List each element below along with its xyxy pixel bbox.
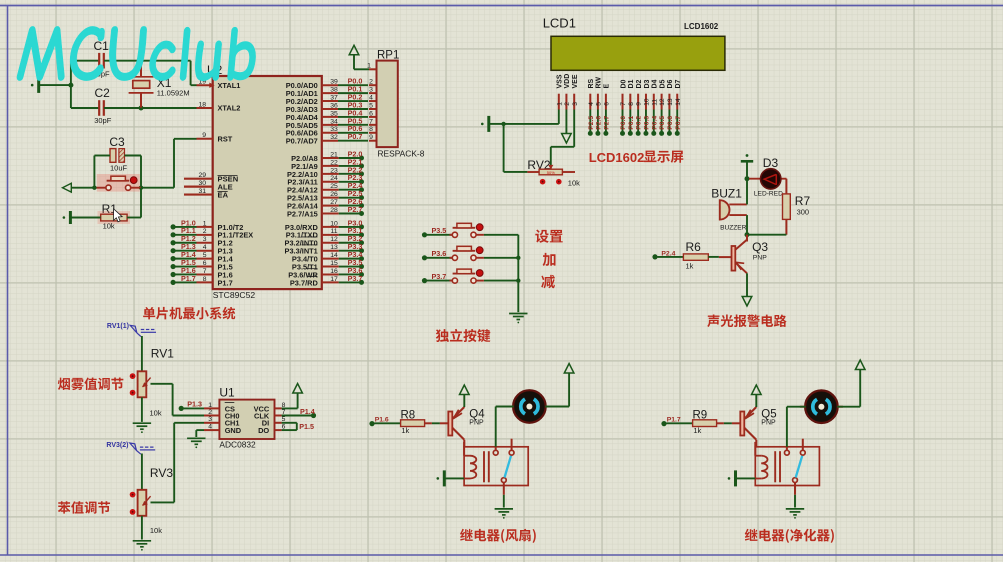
svg-text:P2.5: P2.5 (588, 116, 595, 130)
svg-text:13: 13 (667, 98, 674, 106)
svg-text:50%: 50% (547, 170, 555, 175)
svg-text:1: 1 (556, 102, 563, 106)
svg-text:P1.7: P1.7 (218, 278, 233, 287)
svg-text:P0.0: P0.0 (620, 116, 627, 130)
svg-text:9: 9 (636, 102, 643, 106)
svg-text:D5: D5 (659, 79, 666, 88)
svg-text:31: 31 (198, 188, 206, 195)
svg-text:4: 4 (208, 424, 212, 431)
svg-text:7: 7 (203, 268, 207, 275)
svg-text:7: 7 (620, 102, 627, 106)
svg-text:10k: 10k (103, 222, 115, 231)
svg-text:P1.4: P1.4 (300, 407, 315, 416)
svg-text:R7: R7 (795, 194, 811, 208)
svg-text:10: 10 (330, 220, 338, 227)
svg-text:P3.7: P3.7 (432, 272, 447, 281)
svg-text:10uF: 10uF (110, 164, 128, 173)
svg-text:P1.3: P1.3 (187, 399, 202, 408)
svg-text:E: E (604, 84, 611, 89)
svg-text:16: 16 (330, 268, 338, 275)
svg-text:1k: 1k (401, 426, 409, 435)
svg-text:10k: 10k (150, 408, 162, 417)
svg-text:P0.4: P0.4 (651, 116, 658, 130)
svg-text:3: 3 (203, 236, 207, 243)
svg-text:RST: RST (218, 134, 233, 143)
svg-text:37: 37 (330, 94, 338, 101)
svg-text:XTAL2: XTAL2 (218, 103, 241, 112)
svg-text:RV3(2): RV3(2) (106, 442, 128, 449)
svg-text:RV3: RV3 (150, 466, 173, 480)
svg-text:21: 21 (330, 151, 338, 158)
svg-text:10: 10 (644, 98, 651, 106)
svg-text:XTAL1: XTAL1 (218, 81, 241, 90)
svg-text:14: 14 (675, 98, 682, 106)
svg-text:4: 4 (588, 102, 595, 106)
svg-text:2: 2 (203, 228, 207, 235)
svg-text:D4: D4 (652, 79, 659, 88)
svg-text:U1: U1 (219, 386, 235, 400)
svg-text:ADC0832: ADC0832 (219, 439, 256, 449)
svg-text:P3.7/RD: P3.7/RD (290, 278, 319, 287)
svg-text:9: 9 (369, 134, 373, 141)
svg-text:11: 11 (330, 228, 337, 235)
svg-text:D6: D6 (667, 79, 674, 88)
svg-text:RV1: RV1 (151, 347, 174, 361)
svg-text:27: 27 (330, 199, 338, 206)
svg-text:PNP: PNP (753, 254, 767, 261)
svg-text:12: 12 (659, 98, 666, 106)
svg-text:11.0592M: 11.0592M (157, 89, 190, 98)
svg-text:PNP: PNP (761, 419, 776, 426)
svg-text:P3.7: P3.7 (348, 274, 363, 283)
svg-text:D7: D7 (675, 79, 682, 88)
svg-text:10k: 10k (150, 526, 162, 535)
svg-text:2: 2 (564, 102, 571, 106)
svg-text:1: 1 (367, 62, 371, 69)
svg-text:3: 3 (572, 102, 579, 106)
svg-text:3: 3 (369, 87, 373, 94)
svg-text:P1.5: P1.5 (299, 422, 314, 431)
svg-text:STC89C52: STC89C52 (213, 290, 256, 300)
svg-text:26: 26 (330, 191, 338, 198)
svg-text:VEE: VEE (572, 74, 579, 88)
svg-text:P2.7/A15: P2.7/A15 (287, 209, 318, 218)
svg-text:D1: D1 (628, 79, 635, 88)
svg-text:5: 5 (203, 252, 207, 259)
svg-text:23: 23 (330, 167, 338, 174)
svg-text:1: 1 (208, 402, 212, 409)
svg-text:LED-RED: LED-RED (754, 191, 783, 198)
svg-text:LCD1: LCD1 (543, 16, 576, 31)
svg-text:10k: 10k (568, 178, 580, 187)
svg-text:6: 6 (369, 110, 373, 117)
svg-text:14: 14 (330, 252, 338, 259)
svg-text:34: 34 (330, 118, 338, 125)
svg-text:RV1(1): RV1(1) (107, 323, 129, 330)
svg-text:11: 11 (651, 99, 658, 106)
svg-text:P2.7: P2.7 (348, 205, 363, 214)
svg-text:P0.1: P0.1 (628, 116, 635, 130)
svg-text:R6: R6 (686, 240, 702, 254)
svg-text:P1.7: P1.7 (667, 416, 681, 423)
svg-text:8: 8 (369, 126, 373, 133)
svg-text:P0.6: P0.6 (667, 116, 674, 130)
svg-text:BUZ1: BUZ1 (711, 187, 742, 201)
svg-text:P2.7: P2.7 (604, 116, 611, 130)
svg-text:4: 4 (203, 244, 207, 251)
svg-text:30: 30 (198, 180, 206, 187)
svg-text:VDD: VDD (564, 74, 571, 89)
svg-text:15: 15 (330, 260, 338, 267)
svg-text:38: 38 (330, 87, 338, 94)
svg-text:RS: RS (588, 78, 595, 88)
svg-text:P0.5: P0.5 (659, 116, 666, 130)
svg-text:3: 3 (208, 416, 212, 423)
svg-text:RESPACK-8: RESPACK-8 (378, 149, 425, 159)
svg-text:32: 32 (330, 134, 338, 141)
svg-text:P0.7: P0.7 (348, 132, 363, 141)
svg-text:13: 13 (330, 244, 338, 251)
svg-text:LCD1602: LCD1602 (589, 150, 645, 165)
svg-text:P0.7: P0.7 (675, 116, 682, 130)
svg-text:29: 29 (198, 172, 206, 179)
svg-text:33: 33 (330, 126, 338, 133)
svg-text:P1.7: P1.7 (181, 274, 196, 283)
svg-text:Q3: Q3 (752, 240, 768, 254)
svg-text:24: 24 (330, 175, 338, 182)
svg-text:28: 28 (330, 207, 338, 214)
svg-text:36: 36 (330, 102, 338, 109)
svg-text:D0: D0 (620, 79, 627, 88)
svg-text:35: 35 (330, 110, 338, 117)
svg-text:12: 12 (330, 236, 338, 243)
svg-text:P0.3: P0.3 (644, 116, 651, 130)
svg-text:D2: D2 (636, 79, 643, 88)
svg-text:8: 8 (203, 276, 207, 283)
svg-text:GND: GND (225, 426, 242, 435)
svg-text:RW: RW (596, 77, 603, 89)
svg-text:5: 5 (369, 102, 373, 109)
svg-text:1k: 1k (686, 262, 694, 271)
svg-text:8: 8 (628, 102, 635, 106)
svg-text:17: 17 (330, 276, 338, 283)
svg-text:2: 2 (369, 79, 373, 86)
svg-text:22: 22 (330, 159, 338, 166)
svg-text:P3.5: P3.5 (432, 226, 447, 235)
svg-text:1: 1 (203, 220, 207, 227)
svg-text:P2.6: P2.6 (596, 116, 603, 130)
svg-text:7: 7 (369, 118, 373, 125)
svg-text:P1.6: P1.6 (375, 416, 389, 423)
svg-text:6: 6 (604, 102, 611, 106)
svg-text:PNP: PNP (469, 419, 484, 426)
svg-text:5: 5 (596, 102, 603, 106)
svg-text:VSS: VSS (557, 74, 564, 88)
svg-text:D3: D3 (644, 79, 651, 88)
svg-text:6: 6 (203, 260, 207, 267)
svg-text:1k: 1k (693, 426, 701, 435)
svg-text:39: 39 (330, 79, 338, 86)
svg-text:300: 300 (797, 208, 810, 217)
svg-text:P0.2: P0.2 (636, 116, 643, 130)
svg-text:C2: C2 (95, 86, 111, 100)
svg-text:P0.7/AD7: P0.7/AD7 (286, 137, 318, 146)
svg-text:2: 2 (208, 409, 212, 416)
svg-text:4: 4 (369, 94, 373, 101)
svg-text:D3: D3 (763, 156, 779, 170)
svg-text:DO: DO (258, 426, 269, 435)
svg-text:25: 25 (330, 183, 338, 190)
svg-text:30pF: 30pF (94, 116, 112, 125)
svg-text:P3.6: P3.6 (432, 249, 447, 258)
svg-text:C3: C3 (109, 135, 125, 149)
svg-text:BUZZER: BUZZER (720, 225, 747, 232)
svg-text:LCD1602: LCD1602 (684, 22, 719, 31)
